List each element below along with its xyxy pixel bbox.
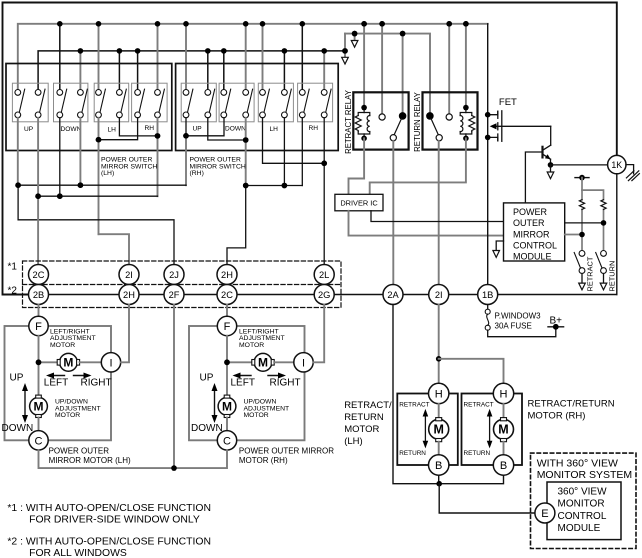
svg-text:F: F [224,321,231,333]
wire: bus B stub to DOWN2 [79,51,81,89]
svg-text:CONTROL: CONTROL [513,241,557,251]
return relay blade [431,119,438,135]
connector 2H row1 [217,265,237,285]
PART13: 360 view monitor system [531,453,637,548]
wire: bus A stub to RH-LH1 [262,24,264,90]
off-page arrow retract [579,283,586,290]
power outer mirror control module box [504,203,565,261]
return relay coil terminal dots [463,105,469,111]
svg-text:M: M [222,400,232,414]
wire: resistor column 1 [581,178,583,200]
terminal E [535,503,555,523]
driver IC box [335,194,383,211]
PART8: connector rows [8,261,617,308]
connector 2C row2 [217,285,237,305]
resistor R1 [579,200,584,210]
svg-text:(LH): (LH) [101,170,114,177]
wire: 2G to I [313,305,324,363]
wire: DOWN1 bottom down to wire2 [59,118,61,196]
svg-text:LH: LH [270,126,279,133]
retract/return double arrow (LH) [423,409,429,449]
connector 2B row2 [29,285,49,305]
junction dot RH-UP1 [183,133,189,139]
wire: retract relay output down to 2A [392,141,394,285]
wire: bus B stub to RH-DOWN1 [223,51,225,89]
retract relay moving contact [390,135,396,141]
wire: H to M (RH) [503,404,505,420]
wire: RH-RH2 down to 2L [323,118,325,265]
dashed box WITH 360 VIEW MONITOR SYSTEM [531,453,637,548]
transistor emitter arrowhead [545,154,551,159]
svg-text:RH: RH [145,125,155,132]
off-page arrow 2 [351,41,358,48]
terminal C [29,431,48,450]
360 view monitor control module box [547,482,621,540]
wire: bus A top feed [18,24,488,90]
junction dots redraw (relay taps) [342,21,469,54]
svg-text:B+: B+ [550,316,563,327]
wire: relay feed bus (gray, y=33.6) [345,34,430,114]
junction dot H feed [436,356,442,362]
connector 2I row1 [119,265,139,285]
terminal H (LH) [429,383,449,403]
svg-text:H: H [500,389,508,401]
junction dot RH2 [155,133,161,139]
power outer mirror switch (RH) group box [176,64,339,151]
return switch top contact [601,251,607,257]
svg-text:1B: 1B [482,290,493,300]
DOWN switch box (LH) [54,83,88,122]
LH switch box (RH) [258,83,293,122]
retract relay box [353,92,408,149]
svg-text:C: C [223,435,231,447]
svg-text:B: B [500,460,507,472]
junction dot UP2/wire2 [35,193,41,199]
up/down double arrow [22,383,28,423]
return switch bottom contact [601,268,607,274]
module ground off-page arrow [493,251,500,258]
svg-text:2C: 2C [221,290,233,300]
junction dot DOWN2/wire1 [78,182,84,188]
svg-text:FOR DRIVER-SIDE WINDOW ONLY: FOR DRIVER-SIDE WINDOW ONLY [29,515,200,526]
connector 1B [478,285,498,305]
wire: RH-RH1 down to wire segment [301,118,303,186]
svg-text:LH: LH [108,127,117,134]
FET symbol [488,111,551,142]
wire: driver IC to module upper [371,211,504,222]
wire: bus A stub to RH-RH1 [301,24,303,90]
svg-text:MOTOR: MOTOR [50,342,75,349]
motor M2 up/down [218,397,236,415]
wire: return relay coil feed [465,24,467,107]
return relay common contact [426,112,434,120]
wire: bus B stub to LH2 [118,51,120,89]
svg-text:(RH): (RH) [190,170,204,177]
PART12: retract/return motors [344,305,615,514]
left arrow [233,373,252,379]
wire: LH1 elbow to 2I [99,234,130,264]
svg-text:*2: *2 [8,286,18,297]
wire: bus A stub to RH-UP1 [185,24,187,90]
wire: F down to junction and M2 [38,336,40,396]
wire: 1K to ground [626,165,634,174]
svg-text:POWER OUTER: POWER OUTER [49,447,110,456]
terminal C [217,431,236,450]
svg-text:2L: 2L [319,270,329,280]
transistor Q1 [543,126,551,165]
PART7: FET, transistor, 1K joint connector [485,24,640,295]
svg-text:POWER: POWER [513,207,548,217]
junction dot RH-DOWN2/wire [243,183,249,189]
wire: retract relay coil feed [363,24,365,107]
wire: bus A stub to DOWN1 [59,24,61,90]
DOWN switch box (RH) [219,83,254,122]
left arrow [46,373,65,379]
PART2: LH power outer mirror switch [6,64,172,235]
wire: outer frame net (2B to 1K joint) [3,3,617,295]
junction dot F column [224,359,230,365]
svg-text:POWER OUTER MIRROR: POWER OUTER MIRROR [239,447,334,456]
svg-text:RETRACT: RETRACT [399,402,429,409]
wire: H to M (LH) [438,404,440,420]
wire: 2C row2 to F [226,305,228,317]
wire: DOWN2 bottom down to wire1 [79,118,81,185]
svg-text:P.WINDOW3: P.WINDOW3 [495,312,542,321]
svg-text:UP: UP [200,373,214,384]
ground [626,171,639,181]
wire: UP2 bottom down through wire2 to 2C [37,118,39,265]
resistor R2 [601,200,606,210]
svg-text:M: M [433,423,443,437]
dashed connector box mid line [23,284,342,286]
svg-text:LEFT: LEFT [44,378,68,389]
wire: bus A stub to LH1 [98,24,100,90]
retract relay NC contact [379,114,385,120]
wire: RH-UP2 elbow to RH-DOWN2 [208,118,246,140]
svg-text:I: I [302,357,305,369]
PART9: fuse and B+ [485,305,563,337]
svg-text:OUTER: OUTER [513,218,545,228]
retract switch blade [574,253,580,269]
wire: M to B (RH) [503,442,505,455]
svg-text:MODULE: MODULE [558,523,601,534]
terminal B (LH) [429,455,449,475]
return switch blade [596,253,602,269]
terminal F [217,316,236,335]
wire: bus B stub to RH-RH2 [323,51,325,89]
wire: emitter to 1K [551,164,608,166]
PART5: relays [344,89,478,284]
UP switch box (LH) [12,83,48,122]
right arrow [268,373,286,379]
retract relay blade [394,119,401,135]
motor M1 left/right [254,353,272,371]
junction dot on relay feed bus [352,31,358,37]
svg-text:2C: 2C [33,270,45,280]
svg-text:RH: RH [309,125,319,132]
wire: row2 bus [39,294,617,296]
dashed connector box row 1 [23,261,342,308]
svg-text:RETRACT/: RETRACT/ [344,400,392,411]
junction dot F column [36,359,42,365]
junction dots redraw (switch interconnects) [15,133,327,199]
power outer mirror motor (LH) box [5,326,112,440]
power outer mirror motor (RH) box [189,326,305,440]
connector 2J row1 [164,265,184,285]
svg-text:MODULE: MODULE [513,252,552,262]
svg-text:RETRACT: RETRACT [586,256,595,291]
wire: RH-DOWN2 elbow to 2H [227,186,246,265]
wire: RH2 bottom down to wire2 [157,118,159,196]
svg-text:2H: 2H [221,270,233,280]
svg-text:B: B [435,460,442,472]
svg-text:2J: 2J [169,270,179,280]
FET gate arrowhead [490,123,497,129]
junction dot 2F/C bus [171,465,177,471]
B+ terminal bar [548,326,564,328]
PART3: RH power outer mirror switch [176,64,339,265]
return relay box [423,92,478,149]
terminal H (RH) [493,383,513,403]
svg-text:RETURN: RETURN [464,450,491,457]
svg-text:*1 : WITH AUTO-OPEN/CLOSE FUNC: *1 : WITH AUTO-OPEN/CLOSE FUNCTION [7,503,211,514]
svg-text:UP: UP [193,126,203,133]
wire: F down to junction and M2 [226,336,228,396]
wire: RH-DOWN2 down to wire segment [245,118,247,186]
wire: M1 to I [274,361,294,363]
svg-text:RIGHT: RIGHT [81,378,112,389]
wire: RH-UP1 down to dot and elbow to RH-DOWN1 [186,118,224,136]
junction dot column2 [601,220,607,226]
svg-text:2H: 2H [123,290,135,300]
wire1: common bus y=185.2 [18,184,186,186]
wire: bus B stub to RH-LH2 [283,51,285,89]
retract switch top contact [579,251,585,257]
off-page arrow below emitter [547,172,554,179]
wire: transistor base to module [525,152,542,203]
wire: FET main vertical down to 1B [487,24,489,285]
motor M retract (RH) [494,419,514,439]
RH switch box (LH) [132,83,168,122]
PART1: frame and buses [3,3,617,295]
connector 2G row2 [314,285,334,305]
junction dot UP1/wire1 [15,182,21,188]
svg-text:DOWN: DOWN [225,126,246,133]
wire: return coil to driver IC [370,138,466,194]
retract/return double arrow (RH) [487,409,493,449]
wire segment RH group y=185.5 [246,185,303,187]
svg-text:(LH): (LH) [344,436,362,447]
svg-text:2A: 2A [387,290,399,300]
wire: module right to resistor column 1 [565,234,582,236]
wire: RH1 bottom elbow to LH1 [99,118,138,140]
svg-text:*1: *1 [8,262,18,273]
switch poles RH group [183,89,193,118]
junction dot DOWN1/wire2 [57,193,63,199]
wire: 2A down to B bus [393,305,504,484]
wire: retract coil to driver IC [349,138,365,194]
junction dot emitter [548,162,554,168]
wire: junction to M1 [227,361,252,363]
svg-text:M: M [258,356,268,370]
terminal I [101,353,120,372]
junction dot RH-RH2 [321,161,327,167]
svg-text:DRIVER IC: DRIVER IC [340,198,378,207]
connector 2F row2 [164,285,184,305]
connector 2L row1 [314,265,334,285]
svg-text:2I: 2I [435,290,443,300]
terminal I [294,353,313,372]
junction dots on bus A [57,21,469,27]
svg-text:MOTOR: MOTOR [239,342,264,349]
wire: bus B top feed [38,51,345,89]
junction dot LH1 [96,137,102,143]
wire: return relay output down to 2I [438,141,440,285]
up/down double arrow [212,383,218,423]
PART10: LH power outer mirror motor [2,305,132,466]
svg-text:MIRROR: MIRROR [513,229,550,239]
wire: 2B to F [38,305,40,317]
wire: M1 to I [80,361,102,363]
svg-text:1K: 1K [611,160,622,170]
svg-text:MIRROR MOTOR (LH): MIRROR MOTOR (LH) [49,456,131,465]
retract switch bottom contact [579,268,585,274]
svg-text:H: H [435,389,443,401]
fuse P.WINDOW3 30A [485,309,490,314]
svg-text:MOTOR (RH): MOTOR (RH) [239,456,288,465]
PART6: driver IC and control module [335,175,617,292]
wire: B bus down to E [439,484,535,513]
wire: RH-UP1 junction down to wire1 [185,136,187,185]
svg-text:M: M [63,356,73,370]
svg-text:I: I [109,357,112,369]
junction dots on bus B [78,48,348,54]
svg-text:RETRACT/RETURN: RETRACT/RETURN [528,399,615,410]
svg-text:FOR ALL WINDOWS: FOR ALL WINDOWS [29,548,127,558]
svg-text:2I: 2I [125,270,133,280]
svg-text:2G: 2G [318,290,330,300]
terminal bar above resistors [575,177,589,179]
wire: 1K down to row2 bus [616,174,618,295]
svg-text:RETURN: RETURN [608,261,617,292]
svg-text:E: E [541,508,548,520]
junction dot RH-DOWN2 [243,137,249,143]
svg-text:F: F [35,321,42,333]
motor M1 left/right [60,353,78,371]
wire: bus B stub to RH-UP2 [207,51,209,89]
switch poles LH group [15,89,25,118]
wire: retract switch to arrow [581,274,583,284]
right arrow [74,373,92,379]
svg-text:RIGHT: RIGHT [270,378,301,389]
svg-text:30A FUSE: 30A FUSE [495,322,532,331]
wire: M2 to C [38,418,40,431]
wire: LH2 bottom to RH2 junction [119,118,157,136]
LH switch box (LH) [94,83,129,122]
svg-text:DOWN: DOWN [2,423,34,434]
retract/return motor (LH) box [397,394,458,466]
PART4: interconnect wires to connector row [15,118,327,265]
wire: M to B (LH) [438,442,440,455]
retract relay coil with resistor [355,108,370,139]
wire: B (LH) to B bus [438,475,440,484]
wire: bus B stub to RH1 [137,51,139,89]
svg-text:*2 : WITH AUTO-OPEN/CLOSE FUNC: *2 : WITH AUTO-OPEN/CLOSE FUNCTION [7,536,211,547]
return relay NC contact [446,114,452,120]
terminal B (RH) [493,455,513,475]
svg-text:FET: FET [499,97,517,108]
wire: bus A stub to RH2 [157,24,159,90]
wire: stub to off-page arrow 2 [354,34,356,41]
wire: return switch to arrow [603,274,605,284]
RH switch box (RH) [298,83,333,122]
junction dot B bus [436,481,442,487]
svg-text:2B: 2B [33,290,44,300]
svg-text:MONITOR: MONITOR [558,499,605,510]
wire: emitter stub to off-page arrow [550,165,552,172]
svg-text:UP: UP [10,373,24,384]
wire: vertical x=345 down to off-page arrow [344,34,346,58]
terminal F [29,316,48,335]
return relay coil with resistor [460,108,475,139]
node dot at 402.6 on relay feed bus [400,31,406,37]
power outer mirror switch (LH) group box [6,64,172,151]
svg-text:MONITOR SYSTEM: MONITOR SYSTEM [537,469,632,481]
wire: common C bus [39,450,228,468]
connector 2I row2 [429,285,449,305]
PART14: notes [7,503,211,558]
joint connector 1K [608,155,626,173]
svg-text:M: M [34,400,44,414]
UP switch box (RH) [181,83,216,122]
retract relay coil terminal dots [361,105,367,111]
motor M retract (LH) [429,419,449,439]
svg-text:RETRACT: RETRACT [464,402,494,409]
connector 2H row2 [119,285,139,305]
svg-text:360° VIEW: 360° VIEW [558,487,608,498]
return relay moving contact [436,135,442,141]
wire: elbow to RH retract motor H [439,359,504,384]
wire: junction to M1 [39,361,58,363]
wire2: bus y=196.2 [38,195,157,197]
svg-text:RETRACT RELAY: RETRACT RELAY [344,89,353,154]
wire: return relay NC contact feed [448,24,450,113]
svg-text:RETURN: RETURN [344,412,384,423]
svg-text:C: C [35,435,43,447]
junction dot column1 [579,232,585,238]
svg-text:MOTOR: MOTOR [244,412,269,419]
wire: LH1 bottom down through dot to elbow [98,118,100,234]
wire: 2I down to H junction [438,305,440,384]
svg-text:MOTOR: MOTOR [344,424,379,435]
wire: from UP1 junction down and right to 2J [18,185,174,264]
wire: RH-LH1 elbow to RH-RH2 [263,118,325,164]
wire: UP1 bottom down to wire1 [17,118,19,185]
wire: branch to resistor column 2 [582,190,604,200]
wire: retract relay NC contact feed [381,24,383,113]
wire: M2 to C [226,418,228,431]
svg-text:WITH 360° VIEW: WITH 360° VIEW [537,458,618,470]
wire: RH-LH2 down to wire segment [283,118,285,186]
svg-text:2F: 2F [169,290,180,300]
wire: driver IC to module lower [349,211,504,236]
off-page arrow return [600,283,607,290]
wire: fuse to B+ [488,327,556,337]
svg-text:MOTOR: MOTOR [55,412,80,419]
PART11: RH power outer mirror motor [39,305,335,471]
svg-text:UP: UP [24,126,34,133]
junction dot on terminal bar [579,175,585,181]
